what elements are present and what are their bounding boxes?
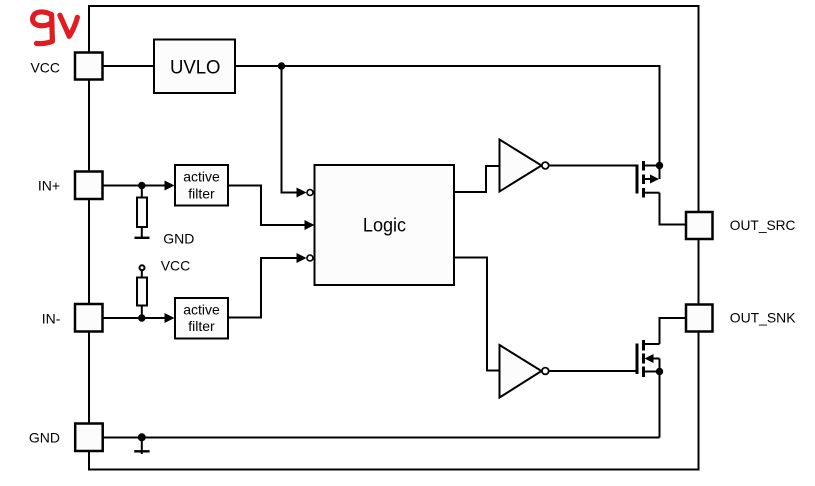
wire OUT_SNK pad to Q2 drain [660, 318, 687, 344]
wire GND rail [103, 437, 660, 439]
svg-text:GND: GND [29, 429, 60, 445]
wire junction Q2 source [656, 368, 663, 375]
resistor R1 pulldown on IN+ [137, 186, 147, 228]
svg-text:OUT_SRC: OUT_SRC [730, 217, 796, 233]
transistor Q2 (low-side MOSFET) [637, 340, 660, 377]
wire junction on GND rail [138, 433, 146, 441]
wire top buffer output to Q1 gate [549, 165, 636, 167]
svg-text:VCC: VCC [30, 59, 60, 75]
wire IN+ pad to filter arrow [102, 185, 166, 187]
wire Logic output 2 to bottom buffer [454, 258, 500, 371]
svg-text:VCC: VCC [161, 258, 191, 274]
block active filter 1 [175, 165, 228, 206]
wire Q2 source down to ground rail [659, 372, 661, 438]
ground symbol below R1 [135, 227, 150, 239]
wire active filter 1 to Logic input 2 [228, 186, 305, 226]
svg-text:active: active [183, 302, 220, 318]
pin GND [29, 424, 103, 452]
arrowhead into active filter 1 [165, 181, 175, 191]
wire junction on IN+ net [138, 182, 145, 189]
wire bottom buffer output to Q2 gate [549, 370, 636, 372]
wire UVLO output rail to MOSFET drain [235, 66, 660, 166]
inverting bubble Logic input 1 [307, 190, 313, 196]
IC boundary frame [89, 6, 699, 470]
pin OUT_SRC [686, 212, 796, 239]
pin OUT_SNK [686, 305, 796, 332]
wire rail junction down to Logic input 1 [282, 66, 297, 193]
wire active filter 2 to Logic input 3 [228, 258, 297, 318]
resistor R2 pullup on IN- [137, 271, 147, 318]
pin VCC [30, 53, 102, 80]
inverting bubble Logic input 3 [307, 255, 313, 261]
buffer/inverter U3 top [500, 140, 549, 192]
svg-text:IN+: IN+ [38, 178, 60, 194]
block Logic U2 [315, 165, 455, 285]
svg-text:filter: filter [188, 186, 215, 202]
svg-text:OUT_SNK: OUT_SNK [730, 309, 796, 325]
svg-text:UVLO: UVLO [170, 57, 221, 78]
svg-text:filter: filter [188, 318, 215, 334]
wire junction on IN- net [138, 314, 145, 321]
block active filter 2 [175, 298, 228, 339]
arrowhead into Logic input 3 [297, 253, 307, 263]
wire Q1 source to OUT_SRC pad [660, 193, 687, 225]
ground symbol at GND rail [134, 438, 149, 455]
svg-text:Logic: Logic [363, 216, 406, 237]
arrowhead into Logic input 1 [297, 188, 307, 198]
pin IN+ [38, 172, 103, 200]
svg-text:IN-: IN- [42, 310, 61, 326]
buffer/inverter U4 bottom [500, 345, 549, 398]
open terminal circle VCC on R2 [140, 265, 145, 270]
svg-text:active: active [183, 169, 220, 185]
arrowhead into Logic input 2 [305, 220, 315, 230]
wire IN- pad to filter arrow [102, 317, 166, 319]
wire junction Q1 drain [656, 162, 663, 169]
svg-text:GND: GND [163, 230, 194, 246]
wire junction on VCC rail [278, 62, 285, 69]
logo gv [33, 12, 78, 44]
arrowhead into active filter 2 [165, 313, 175, 323]
wire Logic output 1 to top buffer [454, 166, 500, 192]
transistor Q1 (high-side MOSFET) [637, 161, 660, 198]
pin IN- [42, 304, 103, 332]
wire VCC pad to UVLO [102, 65, 154, 67]
block UVLO U1 [154, 40, 235, 94]
